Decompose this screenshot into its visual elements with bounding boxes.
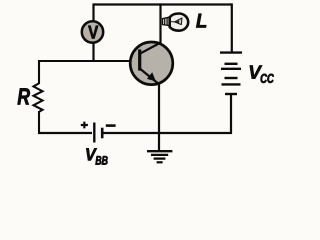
wire collector vertical — [159, 3, 161, 43]
battery VBB short plate — [101, 128, 104, 139]
plus sign — [81, 122, 88, 129]
label R — [18, 88, 30, 104]
resistor R — [34, 83, 43, 112]
wire top rail — [94, 3, 233, 5]
wire bottom right — [103, 132, 232, 134]
lamp filament core — [176, 20, 179, 23]
voltmeter V body — [82, 21, 103, 42]
wire voltmeter bottom stub — [92, 43, 94, 62]
wire bottom left — [38, 132, 92, 134]
battery Vcc plates — [220, 53, 242, 94]
wire left vertical upper — [38, 60, 40, 84]
lamp filament lead — [170, 21, 175, 23]
label L — [196, 14, 206, 28]
label VBB (BB subscript) — [96, 156, 108, 165]
wire voltmeter top stub — [92, 3, 94, 21]
wire emitter vertical — [158, 84, 160, 150]
lamp L globe — [170, 14, 189, 31]
wire left vertical lower — [38, 111, 40, 134]
label VCC (CC subscript) — [261, 74, 274, 83]
transistor Q1 body — [130, 42, 173, 85]
transistor base bar — [138, 49, 141, 70]
lamp filament — [175, 18, 182, 25]
ground symbol — [147, 151, 172, 162]
voltmeter V letter — [88, 26, 98, 39]
lamp L base — [163, 17, 170, 26]
label VCC (V) — [250, 66, 262, 79]
transistor emitter lead — [140, 69, 159, 84]
wire base — [39, 60, 140, 62]
wire Vcc bottom stub — [230, 94, 232, 134]
wire Vcc top stub — [231, 3, 233, 52]
battery VBB long plate — [93, 123, 95, 143]
label VBB (V) — [86, 148, 97, 160]
transistor emitter arrowhead — [148, 73, 156, 81]
minus sign — [106, 124, 116, 127]
transistor collector lead — [140, 43, 161, 54]
